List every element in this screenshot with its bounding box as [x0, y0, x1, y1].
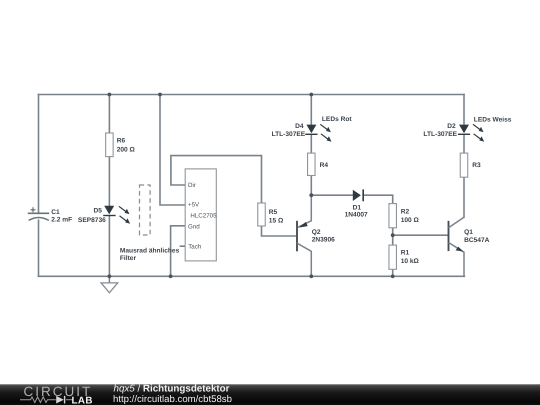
filter label — [120, 247, 180, 262]
svg-text:R4: R4 — [320, 162, 329, 169]
svg-text:2N3906: 2N3906 — [312, 237, 335, 244]
svg-text:BC547A: BC547A — [464, 237, 490, 244]
wire R2 to R1 — [392, 228, 394, 245]
wire D1 cathode to R2 top — [363, 195, 393, 203]
svg-text:LEDs Rot: LEDs Rot — [322, 116, 352, 123]
svg-text:Q2: Q2 — [312, 229, 321, 236]
capacitor C1 — [28, 207, 72, 223]
wire R6 column top — [108, 95, 110, 134]
svg-text:R5: R5 — [269, 209, 278, 216]
svg-text:15 Ω: 15 Ω — [269, 217, 284, 224]
node dot top rail D4 — [309, 93, 313, 97]
svg-text:SEP8736: SEP8736 — [78, 217, 106, 224]
svg-text:D1: D1 — [353, 205, 362, 212]
ground — [101, 276, 118, 293]
wire D4 column from top rail — [310, 95, 312, 126]
svg-text:R1: R1 — [401, 249, 410, 256]
wire Dir pin route to R5 — [171, 156, 262, 203]
resistor R3 — [460, 153, 481, 177]
wire Gnd pin to bottom rail — [171, 226, 186, 276]
svg-text:C1: C1 — [51, 209, 60, 216]
resistor R5 — [258, 203, 284, 226]
wire Tach pin stub — [180, 245, 185, 247]
wire D5 to bottom rail — [108, 216, 110, 276]
svg-text:2.2 mF: 2.2 mF — [51, 217, 72, 224]
svg-text:Filter: Filter — [120, 255, 137, 262]
wire R3 to Q1 collector — [463, 177, 465, 217]
node dot bottom rail ground — [108, 274, 112, 278]
wire +5V supply drop — [160, 95, 185, 206]
wire bottom rail — [39, 275, 465, 277]
IC U1 HLC2705 — [185, 169, 217, 261]
LED D5 — [78, 206, 130, 224]
footer logo diode triangle — [56, 396, 64, 404]
dashed filter box — [140, 185, 151, 235]
node B dot (R2/R1/Q1 base) — [391, 233, 395, 237]
footer bar — [0, 384, 540, 405]
svg-text:LTL-307EE: LTL-307EE — [423, 131, 457, 138]
LED D2 — [423, 123, 484, 142]
wire D2 to R3 — [463, 135, 465, 153]
svg-text:Q1: Q1 — [464, 229, 473, 236]
node dot top rail R6 — [108, 93, 112, 97]
wire R1 to bottom rail — [392, 269, 394, 276]
wire R5 to Q2 base — [262, 226, 297, 236]
svg-text:+5V: +5V — [188, 202, 200, 209]
node dot bottom rail R1 — [391, 274, 395, 278]
LED D4 — [272, 123, 332, 142]
wire R6 to D5 — [108, 157, 110, 206]
node A dot (R4/D1/Q2) — [309, 193, 313, 197]
wire top rail — [39, 94, 465, 96]
resistor R6 — [106, 133, 136, 157]
svg-text:LTL-307EE: LTL-307EE — [272, 131, 306, 138]
resistor R1 — [389, 245, 420, 269]
svg-text:LAB: LAB — [72, 395, 93, 405]
svg-text:Dir: Dir — [188, 182, 196, 189]
wire node A to D1 anode — [311, 194, 353, 196]
svg-text:HLC2705: HLC2705 — [190, 213, 217, 220]
node dot bottom rail Q2 collector — [309, 274, 313, 278]
node dot top rail +5V — [158, 93, 162, 97]
transistor Q2 2N3906 (PNP) — [297, 195, 335, 276]
wire right column D2 from top rail — [463, 95, 465, 126]
wire node B to Q1 base — [393, 234, 448, 236]
wire R4 to node A — [310, 176, 312, 196]
svg-text:10 kΩ: 10 kΩ — [401, 258, 420, 265]
svg-text:R3: R3 — [472, 162, 481, 169]
svg-text:D5: D5 — [93, 208, 102, 215]
wire left lower (C1 to bottom rail) — [38, 220, 40, 276]
svg-text:Mausrad ähnliches: Mausrad ähnliches — [120, 247, 180, 254]
svg-text:Gnd: Gnd — [188, 223, 200, 230]
wire left upper (to C1) — [38, 95, 40, 214]
svg-text:R6: R6 — [117, 137, 126, 144]
resistor R2 — [389, 204, 420, 228]
svg-text:LEDs Weiss: LEDs Weiss — [474, 116, 512, 123]
svg-text:200 Ω: 200 Ω — [117, 146, 136, 153]
diode D1 — [345, 189, 368, 218]
footer logo resistor-diode glyph — [20, 396, 74, 404]
resistor R4 — [308, 153, 329, 175]
svg-text:D4: D4 — [295, 123, 304, 130]
transistor Q1 BC547A (NPN) — [449, 217, 490, 276]
node dot bottom rail Gnd wire — [169, 274, 173, 278]
svg-text:Tach: Tach — [188, 244, 202, 251]
wire D4 to R4 — [310, 135, 312, 153]
svg-text:D2: D2 — [447, 123, 456, 130]
svg-text:100 Ω: 100 Ω — [401, 217, 420, 224]
svg-text:http://circuitlab.com/cbt58sb: http://circuitlab.com/cbt58sb — [113, 394, 232, 405]
svg-text:R2: R2 — [401, 209, 410, 216]
svg-text:1N4007: 1N4007 — [345, 212, 368, 219]
